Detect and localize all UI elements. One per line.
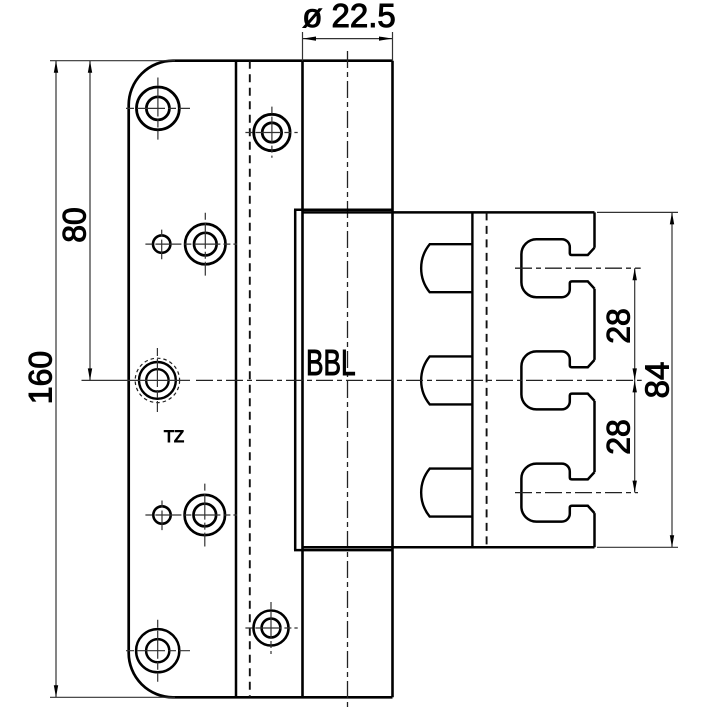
frame part bottom edge (303, 546, 595, 549)
hole H crosshair (245, 602, 297, 654)
hole I inner (146, 639, 169, 662)
dimension 160 extension top (50, 60, 175, 62)
dimension 84 extension top (597, 211, 678, 213)
dimension 22.5 extension right (392, 32, 394, 61)
main horizontal centerline solid left part (82, 379, 191, 381)
dimension 160 arrow top (54, 61, 58, 73)
hole A inner (146, 97, 169, 120)
hook lug bottom (421, 469, 472, 517)
frame part top edge (303, 211, 595, 214)
dimension 28 upper arrow bottom (633, 368, 637, 380)
hole H inner (262, 619, 281, 638)
hole B crosshair (245, 107, 297, 158)
svg-text:28: 28 (601, 308, 637, 344)
main horizontal centerline (196, 379, 642, 381)
hole E center outer (139, 362, 176, 399)
hook lug middle (421, 356, 472, 404)
dimension 80 line (89, 61, 91, 381)
hinge leaf plate outline (129, 61, 393, 698)
hole D mid upper outer (185, 224, 225, 264)
barrel right edge (391, 61, 394, 698)
dimension 22.5 arrow right (379, 37, 393, 41)
hole E vertical crosshair (156, 348, 158, 412)
barrel vertical centerline (347, 51, 349, 707)
hole H bottom-right outer (254, 611, 289, 646)
hook slot middle (521, 351, 594, 409)
housing top joint line (294, 209, 393, 212)
hole A top-left outer (137, 87, 180, 130)
dimension 28 lower line (634, 380, 636, 492)
dimension 22.5 arrow left (303, 37, 317, 41)
leaf hidden edge (dashed) (249, 61, 251, 698)
dimension 160 extension bottom (50, 696, 175, 698)
dimension 28 upper line (634, 268, 636, 380)
dimension 28 upper arrow top (633, 268, 637, 280)
svg-text:84: 84 (639, 362, 676, 399)
hole E dashed circle (135, 358, 179, 402)
hole A crosshair (126, 78, 190, 140)
hole I bottom-left outer (136, 629, 179, 672)
svg-text:160: 160 (23, 351, 59, 404)
dimension 84 arrow top (670, 212, 674, 224)
svg-text:ø 22.5: ø 22.5 (302, 0, 396, 34)
frame part right edge segments (593, 212, 596, 547)
housing bottom joint line (294, 549, 393, 552)
hole F small lower (153, 506, 170, 523)
dimension 22.5 extension left (302, 32, 304, 61)
housing left edge (294, 210, 297, 550)
svg-text:28: 28 (601, 419, 637, 455)
dimension 84 extension bottom (597, 546, 678, 548)
dimension 28 lower arrow top (633, 380, 637, 392)
barrel left edge (301, 61, 304, 698)
hole E inner (146, 369, 168, 391)
frame part hidden edge (dashed) (486, 212, 488, 547)
hole G mid lower outer (185, 495, 225, 535)
hole B top-right outer (254, 114, 290, 150)
hook bottom centerline (515, 492, 638, 494)
hole C small upper (153, 235, 170, 252)
hole I crosshair (126, 620, 190, 682)
hook top centerline (515, 267, 641, 269)
svg-text:80: 80 (57, 207, 93, 243)
frame part inner fold edge (471, 212, 473, 547)
dimension 160 line (55, 61, 57, 698)
dimension 84 arrow bottom (670, 535, 674, 547)
hook slot top (521, 239, 594, 297)
hook slot bottom (521, 464, 594, 522)
leaf fold edge line (235, 61, 238, 698)
dimension 28 lower arrow bottom (633, 481, 637, 493)
dimension 84 line (671, 212, 673, 547)
dimension 80 arrow top (88, 61, 92, 73)
dimension 80 arrow bottom (88, 368, 92, 380)
dimension 160 arrow bottom (54, 685, 58, 697)
svg-text:BBL: BBL (306, 342, 356, 383)
holes F-G crosshair (145, 484, 237, 547)
holes C-D crosshair (145, 213, 237, 276)
hole B inner (262, 123, 281, 142)
svg-text:TZ: TZ (164, 428, 184, 446)
dimension 22.5 line (303, 38, 393, 40)
hole D inner (194, 233, 217, 256)
hole G inner (194, 504, 217, 527)
hook lug top (421, 244, 472, 292)
